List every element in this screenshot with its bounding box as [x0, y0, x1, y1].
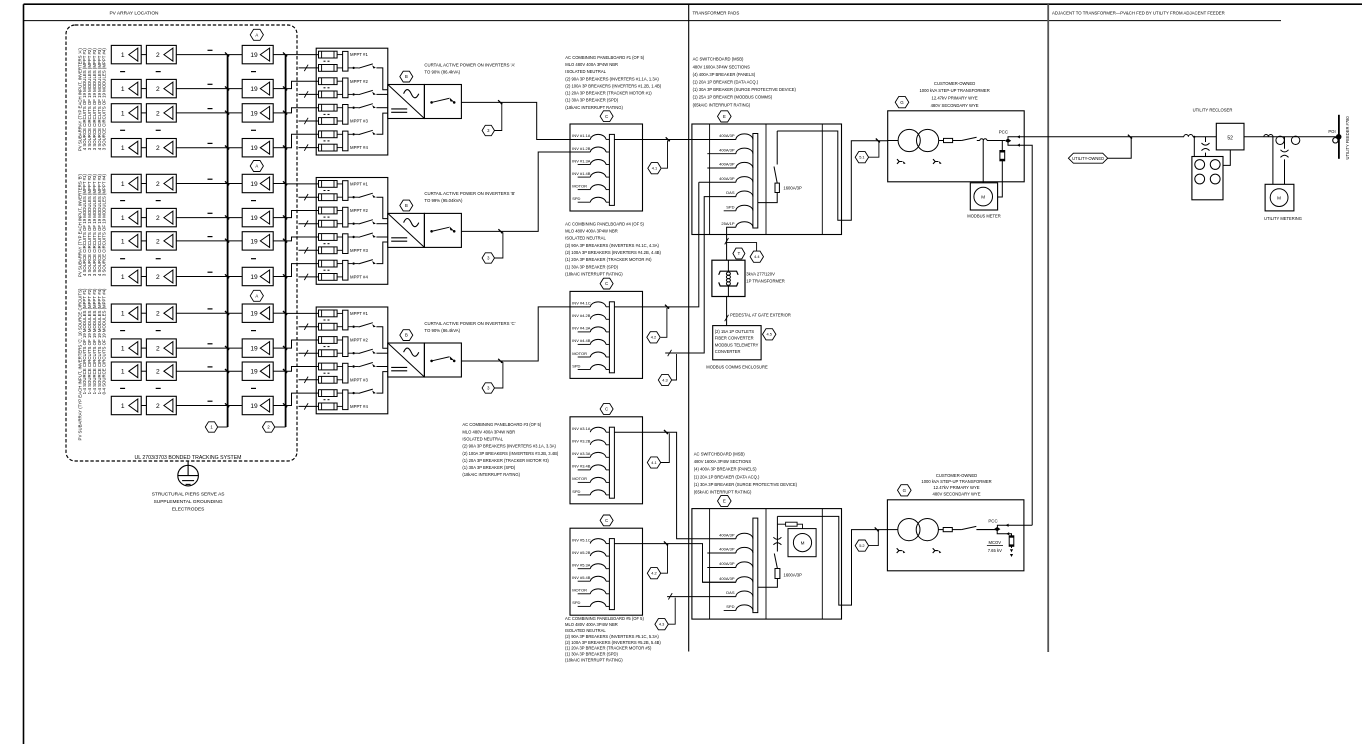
wire PV row3 jog to MPPT fuse B — [286, 237, 319, 241]
PV string B4 module 1 — [111, 267, 141, 285]
svg-text:INV #1.2B: INV #1.2B — [572, 146, 591, 151]
keynote hexagon T step-down transformer — [725, 238, 729, 244]
PV string C2 module 2 — [146, 339, 176, 357]
svg-text:INV #5.2B: INV #5.2B — [572, 550, 591, 555]
svg-text:MPPT #3: MPPT #3 — [350, 377, 368, 382]
breaker INV #4.4B panelboard #4 — [578, 343, 591, 345]
svg-text:AC SWITCHBOARD (MSB): AC SWITCHBOARD (MSB) — [694, 452, 745, 457]
svg-text:2: 2 — [156, 52, 160, 59]
lower switchboard breaker 400A/3P — [736, 547, 753, 553]
dc disconnect switch MPPT1 C — [348, 326, 352, 328]
fuse pair MPPT#1 inverter B — [319, 181, 338, 188]
svg-text:4.5: 4.5 — [766, 332, 771, 337]
svg-text:400A/3P: 400A/3P — [719, 547, 735, 552]
wire PV row3 jog to MPPT fuse C — [286, 367, 319, 372]
lower switchboard SPD stub — [724, 610, 736, 612]
PV string C4 module 2 — [146, 396, 176, 414]
breaker MOTOR panelboard #1 — [578, 189, 591, 191]
MPPT#1 input connector B — [337, 183, 343, 185]
svg-text:1: 1 — [121, 238, 125, 245]
negative conductor stub with polarity tick B — [299, 196, 319, 198]
svg-text:FIBER CONVERTER: FIBER CONVERTER — [715, 336, 754, 341]
svg-text:MLO 480V 400A 3P4W NBR: MLO 480V 400A 3P4W NBR — [565, 229, 618, 234]
fuse pair MPPT#1 inverter A — [319, 51, 338, 58]
breaker INV #1.3A panelboard #1 — [578, 164, 591, 166]
keynote hexagon C panelboard #4 — [600, 278, 613, 289]
PV string B3 module 19 — [242, 232, 273, 250]
wire module19 to bus2 A1 — [273, 54, 285, 56]
svg-text:AC COMBINING PANELBOARD #4 (OF: AC COMBINING PANELBOARD #4 (OF 5) — [565, 221, 644, 226]
PV string C4 module 19 — [242, 396, 273, 414]
svg-text:19: 19 — [250, 311, 258, 318]
svg-text:MPPT #4: MPPT #4 — [350, 275, 368, 280]
PV string A1 module 19 — [242, 45, 273, 63]
wire module2 to bus A3 — [176, 112, 242, 114]
keynote hexagon G upper step-up transformer — [895, 97, 909, 108]
svg-text:400A/3P: 400A/3P — [719, 162, 735, 167]
ellipsis dash on string A4 — [208, 142, 213, 144]
svg-text:4.4: 4.4 — [754, 254, 760, 259]
fuse pair MPPT#4 inverter B — [319, 260, 338, 267]
recloser control cabinet — [1192, 157, 1223, 200]
dc disconnect switch MPPT2 C — [348, 352, 352, 354]
svg-text:4.1: 4.1 — [652, 166, 657, 171]
junction tick bus2 A3 — [283, 111, 287, 115]
svg-text:400A/3P: 400A/3P — [719, 576, 735, 581]
svg-text:2: 2 — [156, 274, 160, 281]
inverter A power unit — [388, 85, 425, 119]
svg-text:(2) 100A 3P BREAKERS (INVERTER: (2) 100A 3P BREAKERS (INVERTERS #1.2B, 1… — [565, 83, 661, 88]
keynote hexagon 4.1 panelboard 3 feeder — [647, 457, 660, 468]
wire module2 to bus A4 — [176, 147, 242, 149]
keynote hexagon 3 inverter C — [495, 362, 503, 388]
keynote hexagon C panelboard #3 — [600, 404, 613, 415]
wire module19 to bus2 A3 — [273, 112, 285, 114]
svg-text:(2) 100A 3P BREAKERS (INVERTER: (2) 100A 3P BREAKERS (INVERTERS #5.2B, 5… — [565, 640, 661, 645]
negative conductor stub with polarity tick A — [299, 147, 319, 149]
svg-text:(18kAIC INTERRUPT RATING): (18kAIC INTERRUPT RATING) — [565, 105, 623, 110]
upper step-up transformer enclosure — [888, 111, 1024, 182]
keynote hexagon 1 at bus1 bottom — [218, 426, 228, 428]
svg-text:AC SWITCHBOARD (MSB): AC SWITCHBOARD (MSB) — [693, 57, 744, 62]
svg-text:ISOLATED NEUTRAL: ISOLATED NEUTRAL — [565, 69, 606, 74]
upper switchboard enclosure — [692, 124, 842, 235]
wire PV row2 jog to MPPT fuse B — [286, 211, 319, 218]
keynote hexagon 4.5 comms enclosure — [763, 329, 776, 340]
wire PV row3 jog to MPPT fuse A — [286, 108, 319, 113]
svg-text:(1) 20A 3P BREAKER (TRACKER MO: (1) 20A 3P BREAKER (TRACKER MOTOR #4) — [565, 257, 652, 262]
svg-text:CUSTOMER-OWNED: CUSTOMER-OWNED — [934, 81, 975, 86]
DC negative home-run bus 1 — [227, 55, 229, 427]
breaker SPD panelboard #3 — [578, 494, 591, 496]
svg-text:C: C — [605, 407, 608, 412]
svg-text:CURTAIL ACTIVE POWER ON INVERT: CURTAIL ACTIVE POWER ON INVERTERS 'A' — [424, 62, 515, 67]
svg-text:SUPPLEMENTAL GROUNDING: SUPPLEMENTAL GROUNDING — [154, 499, 223, 505]
svg-text:MLO 480V 400A 3P4W NBR: MLO 480V 400A 3P4W NBR — [565, 62, 618, 67]
fuse pair MPPT#2 inverter B — [319, 207, 338, 214]
junction tick bus1 C1 — [225, 311, 229, 315]
ellipsis dash on string A2 — [208, 83, 213, 85]
svg-text:INV #1.4B: INV #1.4B — [572, 171, 591, 176]
section divider between transformer pads and adjacent feeder area — [1047, 4, 1049, 652]
keynote hexagon B inverter B — [400, 200, 413, 211]
row-continuation dashes group A — [120, 129, 125, 131]
dc disconnect switch MPPT4 A — [348, 133, 352, 135]
svg-text:PCC: PCC — [999, 130, 1008, 135]
upper switchboard breaker 2-3 stubs — [707, 153, 736, 155]
negative conductor stub with polarity tick A — [299, 120, 319, 122]
wire module1-module2 C4 — [141, 405, 146, 407]
lower switchboard breaker 400A/3P — [736, 533, 753, 539]
svg-text:19: 19 — [250, 274, 258, 281]
svg-text:4.2: 4.2 — [651, 335, 656, 340]
lower switchboard 1600A main breaker with metering — [758, 579, 778, 588]
wire module1-module2 C1 — [141, 312, 146, 314]
wire module2 to bus A1 — [176, 54, 242, 56]
svg-text:B: B — [405, 333, 408, 338]
svg-text:2: 2 — [156, 403, 160, 410]
svg-text:ISOLATED NEUTRAL: ISOLATED NEUTRAL — [462, 437, 503, 442]
wire module19 to bus2 B1 — [273, 183, 285, 185]
svg-text:MPPT #3: MPPT #3 — [350, 119, 368, 124]
svg-text:7.65 kV: 7.65 kV — [988, 548, 1002, 553]
svg-text:1600A/3P: 1600A/3P — [784, 573, 803, 578]
wire module1-module2 A4 — [141, 147, 146, 149]
PV string A4 module 1 — [111, 139, 141, 157]
wire panelboard 5 output riser to lower switchboard breaker 4 — [614, 544, 736, 583]
svg-text:MPPT #1: MPPT #1 — [350, 52, 368, 57]
upper switchboard breaker DAS — [736, 191, 753, 197]
section divider between PV array and transformer pads — [688, 4, 690, 651]
wire PV row2 jog to MPPT fuse C — [286, 340, 319, 348]
metering series coils — [1264, 135, 1273, 137]
ellipsis dash on string C4 — [208, 400, 213, 402]
keynote hexagon 4.3 DAS circuit upper — [671, 354, 676, 380]
utility revenue meter — [1265, 184, 1294, 211]
svg-text:M: M — [1277, 195, 1281, 200]
svg-text:2: 2 — [156, 181, 160, 188]
lower step-up transformer wye ground symbols — [897, 548, 902, 553]
svg-text:480V 1600A 3P4W SECTIONS: 480V 1600A 3P4W SECTIONS — [693, 64, 751, 69]
svg-text:G: G — [903, 488, 907, 493]
svg-text:400A/3P: 400A/3P — [719, 532, 735, 537]
svg-text:CURTAIL ACTIVE POWER ON INVERT: CURTAIL ACTIVE POWER ON INVERTERS 'B' — [424, 191, 515, 196]
svg-text:3kVA 277/120V: 3kVA 277/120V — [746, 271, 775, 276]
wire module2 to bus C3 — [176, 370, 242, 372]
svg-text:C: C — [605, 518, 608, 523]
svg-text:(2) 100A 3P BREAKERS (INVERTER: (2) 100A 3P BREAKERS (INVERTERS #4.2B, 4… — [565, 250, 661, 255]
keynote hexagon 4.4 — [750, 251, 763, 262]
keynote hexagon E lower switchboard — [718, 495, 732, 506]
svg-text:1: 1 — [121, 215, 125, 222]
upper switchboard breaker SPD — [736, 205, 753, 211]
wire module2 to bus C1 — [176, 312, 242, 314]
dc disconnect switch MPPT3 B — [348, 236, 352, 238]
lower switchboard breaker 400A/3P — [736, 562, 753, 568]
negative conductor stub with polarity tick B — [299, 223, 319, 225]
title band underline — [24, 20, 1282, 22]
lower switchboard output route to transformer — [777, 516, 887, 605]
svg-text:T: T — [738, 251, 741, 256]
svg-text:DAS: DAS — [726, 590, 735, 595]
svg-text:SPD: SPD — [572, 196, 580, 201]
svg-text:C: C — [605, 114, 608, 119]
PV string B1 module 1 — [111, 174, 141, 192]
lower switchboard main bus bar — [753, 518, 758, 613]
svg-text:(18kAIC INTERRUPT RATING): (18kAIC INTERRUPT RATING) — [462, 472, 520, 477]
wire PV row1 to MPPT1 fuse A — [286, 54, 319, 56]
MPPT#2 input connector C — [337, 339, 343, 341]
svg-text:(1) 25A 1P BREAKER (MODBUS COM: (1) 25A 1P BREAKER (MODBUS COMMS) — [693, 95, 773, 100]
junction tick bus1 C3 — [225, 369, 229, 373]
svg-text:1: 1 — [121, 145, 125, 152]
fuse pair MPPT#4 inverter A — [319, 131, 338, 138]
svg-text:UTILITY METERING: UTILITY METERING — [1264, 216, 1302, 221]
ellipsis dash on string A3 — [208, 108, 213, 110]
PV string C3 module 2 — [146, 362, 176, 380]
wire inverter A output to panelboard 1 breaker 1 — [461, 102, 590, 139]
upper transformer meter tap — [982, 141, 984, 183]
svg-text:SPD: SPD — [572, 489, 580, 494]
negative conductor stub with polarity tick C — [299, 326, 319, 328]
svg-text:STRUCTURAL PIERS SERVE AS: STRUCTURAL PIERS SERVE AS — [152, 491, 225, 497]
negative conductor stub with polarity tick C — [299, 405, 319, 407]
svg-text:(65kAIC INTERRUPT RATING): (65kAIC INTERRUPT RATING) — [694, 490, 752, 495]
lower switchboard breaker DAS — [736, 591, 753, 597]
PV array dashed boundary UL2703 tracking system — [66, 25, 297, 461]
svg-text:UTILITY-OWNED: UTILITY-OWNED — [1072, 156, 1104, 161]
svg-text:M: M — [981, 194, 985, 199]
AC combining panelboard #4 enclosure — [570, 291, 643, 378]
breaker SPD panelboard #5 — [578, 605, 591, 607]
PV string C1 module 2 — [146, 304, 176, 322]
svg-text:UTILITY RECLOSER: UTILITY RECLOSER — [1193, 108, 1233, 113]
negative conductor stub with polarity tick C — [299, 352, 319, 354]
fuse pair MPPT#2 inverter C — [319, 337, 338, 344]
PV string C3 module 19 — [242, 362, 273, 380]
svg-text:INV #1.1A: INV #1.1A — [572, 133, 591, 138]
junction tick bus1 B4 — [225, 274, 229, 278]
svg-text:ADJACENT TO TRANSFORMER—PV&CH: ADJACENT TO TRANSFORMER—PV&CH FED BY UTI… — [1052, 11, 1225, 16]
svg-text:MOTOR: MOTOR — [572, 588, 587, 593]
MPPT#3 input connector C — [337, 366, 343, 368]
wire transformer to comms pedestal — [726, 297, 728, 326]
PV string B2 module 19 — [242, 208, 273, 226]
upper switchboard breaker4 riser wire — [699, 181, 736, 183]
svg-text:2: 2 — [156, 145, 160, 152]
dc disconnect switch MPPT2 B — [348, 223, 352, 225]
upper switchboard breaker 400A/3P — [736, 148, 753, 154]
svg-text:(1) 20A 1P BREAKER (DATA ACQ.): (1) 20A 1P BREAKER (DATA ACQ.) — [694, 474, 760, 479]
svg-text:MOTOR: MOTOR — [572, 183, 587, 188]
junction tick bus2 B3 — [283, 239, 287, 243]
ellipsis dash on string A1 — [208, 49, 213, 51]
junction tick bus1 B3 — [225, 239, 229, 243]
wire module2 to bus A2 — [176, 88, 242, 90]
upper switchboard breaker 25A/1P — [736, 222, 753, 228]
svg-text:1000 kVA STEP-UP TRANSFORMER: 1000 kVA STEP-UP TRANSFORMER — [919, 88, 989, 93]
ground symbol structural piers — [178, 465, 199, 486]
svg-text:5.2: 5.2 — [859, 543, 864, 548]
fuse pair MPPT#3 inverter C — [319, 363, 338, 370]
junction tick bus2 C3 — [283, 369, 287, 373]
border frame left line — [23, 4, 25, 744]
dc disconnect switch MPPT3 C — [348, 366, 352, 368]
svg-text:MPPT #4: MPPT #4 — [350, 145, 368, 150]
PV string B4 module 2 — [146, 267, 176, 285]
junction tick bus1 C2 — [225, 346, 229, 350]
svg-text:(2) 90A 3P BREAKERS (INVERTERS: (2) 90A 3P BREAKERS (INVERTERS #3.1A, 3.… — [462, 444, 556, 449]
svg-text:TO 90% (86.4kVA): TO 90% (86.4kVA) — [424, 328, 460, 333]
breaker INV #4.3A panelboard #4 — [578, 331, 591, 333]
PV string A3 module 1 — [111, 104, 141, 122]
upper switchboard main bus bar — [753, 134, 758, 229]
svg-text:CONVERTER: CONVERTER — [715, 349, 741, 354]
lower transformer wire to PCC — [976, 529, 997, 531]
3kVA transformer winding symbol — [719, 271, 738, 275]
svg-text:TO 99% (95.04kVA): TO 99% (95.04kVA) — [424, 198, 463, 203]
svg-text:SPD: SPD — [726, 204, 734, 209]
svg-text:(4) 400A 3P BREAKER (PANELS): (4) 400A 3P BREAKER (PANELS) — [694, 467, 757, 472]
PV string A4 module 2 — [146, 139, 176, 157]
utility line from PCC to POI — [1048, 136, 1184, 138]
upper step-up transformer internal wire and fuse — [888, 140, 898, 142]
svg-text:12.47kV PRIMARY WYE: 12.47kV PRIMARY WYE — [932, 96, 978, 101]
svg-text:MOTOR: MOTOR — [572, 351, 587, 356]
lower switchboard breaker 400A/3P — [736, 577, 753, 583]
svg-text:ELECTRODES: ELECTRODES — [172, 506, 205, 512]
wire module19 to bus2 C1 — [273, 312, 285, 314]
modbus revenue meter — [970, 183, 997, 210]
PV string B3 module 2 — [146, 232, 176, 250]
MPPT#2 input connector B — [337, 210, 343, 212]
svg-text:(1) 20A 3P BREAKER (TRACKER MO: (1) 20A 3P BREAKER (TRACKER MOTOR #1) — [565, 91, 652, 96]
lower switchboard meter — [788, 529, 816, 557]
svg-text:ISOLATED NEUTRAL: ISOLATED NEUTRAL — [565, 236, 606, 241]
svg-text:12.47kV PRIMARY WYE: 12.47kV PRIMARY WYE — [933, 485, 979, 490]
svg-text:B: B — [405, 74, 408, 79]
lower switchboard enclosure — [692, 509, 842, 619]
MPPT#4 input connector A — [337, 133, 343, 135]
AC combining panelboard #1 enclosure — [570, 124, 643, 211]
keynote hexagon 4.2 panelboard 4 feeder — [647, 332, 660, 343]
svg-text:(18kAIC INTERRUPT RATING): (18kAIC INTERRUPT RATING) — [565, 271, 623, 276]
wire PV row1 to MPPT1 fuse C — [286, 312, 319, 314]
keynote hexagon 4.3 DAS circuit lower — [668, 598, 675, 625]
svg-text:(2) 90A 3P BREAKERS (INVERTERS: (2) 90A 3P BREAKERS (INVERTERS #4.1C, 4.… — [565, 243, 659, 248]
svg-text:(4) 400A 3P BREAKER (PANELS): (4) 400A 3P BREAKER (PANELS) — [693, 72, 756, 77]
wire module2 to bus C4 — [176, 405, 242, 407]
MPPT#3 input connector A — [337, 107, 343, 109]
svg-text:M: M — [801, 540, 805, 545]
svg-text:2: 2 — [156, 346, 160, 353]
svg-text:1: 1 — [121, 346, 125, 353]
junction tick bus2 B2 — [283, 215, 287, 219]
svg-text:MPPT #3: MPPT #3 — [350, 248, 368, 253]
wire module1-module2 B1 — [141, 183, 146, 185]
svg-text:SPD: SPD — [726, 604, 734, 609]
3kVA step-down transformer enclosure — [712, 260, 745, 296]
svg-text:4.3: 4.3 — [662, 377, 667, 382]
ellipsis dash on string C2 — [208, 343, 213, 345]
breaker SPD panelboard #1 — [578, 201, 591, 203]
keynote hexagon subarray C — [250, 290, 263, 301]
svg-text:19: 19 — [250, 369, 258, 376]
svg-text:MODBUS COMMS ENCLOSURE: MODBUS COMMS ENCLOSURE — [706, 365, 768, 370]
wire module2 to bus B3 — [176, 240, 242, 242]
wire module1-module2 B2 — [141, 217, 146, 219]
keynote hexagon G lower step-up transformer — [898, 485, 912, 496]
svg-text:PV ARRAY LOCATION: PV ARRAY LOCATION — [109, 11, 159, 17]
upper step-up transformer primary blade switch — [953, 140, 962, 142]
PV string A3 module 2 — [146, 104, 176, 122]
breaker INV #5.3A panelboard #5 — [578, 568, 591, 570]
svg-text:19: 19 — [250, 181, 258, 188]
svg-text:1: 1 — [121, 86, 125, 93]
row-continuation dashes group B — [120, 258, 125, 260]
breaker SPD panelboard #4 — [578, 369, 591, 371]
wire module1-module2 B4 — [141, 276, 146, 278]
lower step-up transformer windings — [898, 519, 920, 541]
ellipsis dash on string C1 — [208, 308, 213, 310]
svg-text:19: 19 — [250, 403, 258, 410]
lower step-up transformer internal wire and fuse — [887, 529, 897, 531]
svg-text:19: 19 — [250, 110, 258, 117]
keynote hexagon 2 at bus2 bottom — [275, 426, 286, 428]
svg-text:19: 19 — [250, 238, 258, 245]
svg-text:400A/3P: 400A/3P — [719, 133, 735, 138]
keynote hexagon 5.1 transformer primary feeder — [869, 142, 879, 158]
breaker INV #4.2B panelboard #4 — [590, 314, 606, 319]
svg-text:1: 1 — [121, 311, 125, 318]
PV string A1 module 1 — [111, 45, 141, 63]
svg-text:(1) 30A 3P BREAKER (SPD): (1) 30A 3P BREAKER (SPD) — [462, 465, 515, 470]
keynote hexagon C panelboard #5 — [600, 515, 613, 526]
dc disconnect switch MPPT3 A — [348, 107, 352, 109]
PV string A4 module 19 — [242, 139, 273, 157]
negative conductor stub with polarity tick A — [299, 67, 319, 69]
utility-owned flag — [1108, 137, 1132, 158]
border frame top line — [24, 3, 1362, 5]
svg-text:MPPT #4: MPPT #4 — [350, 404, 368, 409]
PV string B4 module 19 — [242, 267, 273, 285]
ellipsis dash on string C3 — [208, 366, 213, 368]
upper switchboard breaker 400A/3P — [736, 134, 753, 140]
PV string C1 module 1 — [111, 304, 141, 322]
breaker INV #1.1A panelboard #1 — [590, 134, 606, 139]
svg-text:(1) 30A 3P BREAKER (SURGE PROT: (1) 30A 3P BREAKER (SURGE PROTECTIVE DEV… — [693, 87, 797, 92]
lower step-up transformer primary blade switch — [952, 529, 961, 531]
upper switchboard internal column dividers — [709, 124, 711, 235]
junction tick bus2 C4 — [283, 403, 287, 407]
junction tick bus1 A2 — [225, 86, 229, 90]
modbus comms enclosure — [713, 326, 761, 360]
upper switchboard 1600A main breaker — [758, 193, 777, 203]
upper step-up transformer wye ground symbols — [897, 159, 902, 164]
dc disconnect switch MPPT2 A — [348, 93, 352, 95]
svg-text:MPPT #1: MPPT #1 — [350, 311, 368, 316]
keynote hexagon subarray B — [250, 161, 263, 172]
PV string C2 module 19 — [242, 339, 273, 357]
svg-text:MPPT #1: MPPT #1 — [350, 182, 368, 187]
wire module19 to bus2 B2 — [273, 217, 285, 219]
inverter A dc wiring box — [316, 48, 388, 155]
wire module2 to bus B1 — [176, 183, 242, 185]
junction tick bus2 C2 — [283, 346, 287, 350]
PV string A1 module 2 — [146, 45, 176, 63]
svg-text:1600A/3P: 1600A/3P — [783, 186, 802, 191]
svg-text:1: 1 — [121, 403, 125, 410]
